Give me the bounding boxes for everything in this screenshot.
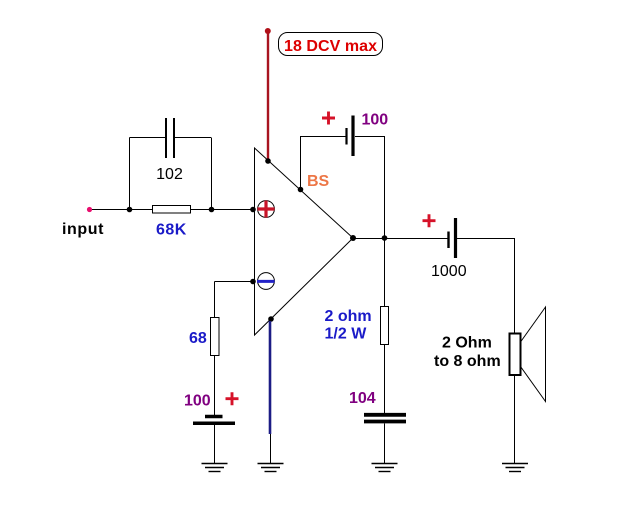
wire output node down to 2 ohm resistor	[384, 238, 386, 306]
label 68K value	[156, 222, 187, 239]
wire input horizontal	[89, 209, 254, 211]
label 100 value (bottom left)	[184, 393, 211, 410]
wire capacitor 100 to ground	[214, 425, 216, 464]
label input	[62, 221, 104, 238]
capacitor 1000 (electrolytic, output)	[449, 218, 456, 258]
wire inverting input horizontal	[215, 281, 255, 283]
resistor 2 ohm	[381, 307, 389, 345]
op-amp U1 triangle	[255, 148, 354, 335]
label 1000 value	[431, 263, 467, 280]
resistor 68K	[153, 206, 191, 214]
op-amp non-inverting input marker (+)	[258, 201, 275, 218]
svg-text:to 8 ohm: to 8 ohm	[434, 353, 501, 370]
label 100 value (top)	[362, 112, 389, 129]
svg-text:BS: BS	[307, 173, 330, 190]
polarity + of capacitor 100 top	[322, 112, 335, 125]
wire feedback loop top left segment	[130, 137, 166, 139]
wire capacitor 1000 to speaker	[457, 239, 515, 465]
label 2 ohm	[325, 308, 372, 325]
node junction output rail	[382, 235, 388, 241]
svg-text:2 Ohm: 2 Ohm	[442, 335, 492, 352]
wire capacitor 104 to ground	[384, 424, 386, 464]
svg-text:100: 100	[362, 112, 389, 129]
node junction red wire to op-amp	[265, 158, 271, 164]
ground below op-amp	[258, 464, 284, 472]
label to 8 ohm	[434, 353, 501, 370]
capacitor 100 (electrolytic, top)	[347, 116, 354, 157]
svg-text:100: 100	[184, 393, 211, 410]
wire blue segment to ground	[270, 434, 272, 464]
svg-text:104: 104	[349, 390, 376, 407]
svg-text:2 ohm: 2 ohm	[325, 308, 372, 325]
wire capacitor 100 top to output rail	[355, 137, 385, 239]
label 68 value	[189, 330, 207, 347]
label 104 value	[349, 390, 376, 407]
svg-text:input: input	[62, 221, 104, 238]
node junction at op-amp + input	[250, 207, 256, 213]
resistor 68	[211, 318, 220, 356]
label BS	[307, 173, 330, 190]
wire op-amp ground (blue segment)	[269, 321, 272, 434]
wire feedback loop left vertical	[129, 138, 131, 210]
capacitor 102	[166, 118, 174, 158]
svg-text:102: 102	[156, 166, 183, 183]
node supply terminal (red dot)	[265, 28, 271, 34]
node op-amp output	[350, 235, 356, 241]
node junction BS on op-amp	[298, 187, 304, 193]
wire V+ supply (red)	[267, 32, 269, 161]
label 102 value	[156, 166, 183, 183]
op-amp inverting input marker (-)	[257, 273, 275, 290]
ground below capacitor 100	[202, 464, 228, 472]
svg-text:1000: 1000	[431, 263, 467, 280]
svg-text:18 DCV max: 18 DCV max	[284, 38, 377, 55]
polarity + of capacitor 1000	[423, 214, 436, 227]
capacitor 100 (electrolytic, bottom left)	[193, 417, 235, 424]
wire feedback loop right vertical	[211, 138, 213, 210]
node junction at op-amp - input	[250, 279, 256, 285]
node input terminal (magenta)	[87, 207, 92, 212]
wire output horizontal	[353, 238, 448, 240]
wire feedback loop top right segment	[175, 137, 211, 139]
label 1/2 W	[325, 326, 368, 343]
label 2 Ohm	[442, 335, 492, 352]
ground below capacitor 104	[372, 464, 398, 472]
polarity + of capacitor 100 bottom left	[226, 392, 239, 405]
wire BS up and to capacitor 100	[301, 137, 347, 190]
svg-text:68K: 68K	[156, 222, 187, 239]
node junction right of 68K	[209, 207, 215, 213]
speaker LS1	[510, 307, 546, 402]
node junction at op-amp lower edge	[268, 316, 274, 322]
svg-text:1/2 W: 1/2 W	[325, 326, 368, 343]
svg-text:68: 68	[189, 330, 207, 347]
ground below speaker	[502, 464, 528, 472]
capacitor 104	[364, 415, 406, 422]
node junction left of 68K	[127, 207, 133, 213]
wire from 68 resistor to capacitor 100	[214, 355, 216, 415]
wire 2 ohm resistor to capacitor 104	[384, 344, 386, 413]
wire from - input down to 68 resistor	[214, 282, 216, 318]
callout box 18 DCV max	[279, 33, 383, 56]
